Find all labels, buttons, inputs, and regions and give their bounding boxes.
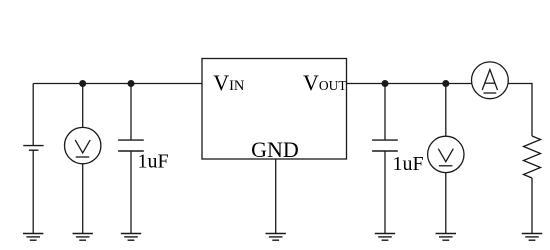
- wire battery to ground: [32, 150, 34, 233]
- wire to capacitor C1: [130, 84, 132, 141]
- ammeter A1: [472, 62, 509, 99]
- wire resistor to ground: [531, 178, 533, 234]
- ground (capacitor C2): [375, 234, 395, 241]
- wire voltmeter V2 to ground: [445, 173, 447, 234]
- svg-text:1uF: 1uF: [393, 153, 424, 175]
- resistor R1: [524, 136, 541, 178]
- ground (capacitor C1): [121, 234, 141, 241]
- wire battery drop top: [32, 84, 34, 146]
- voltage source B1: [23, 146, 43, 151]
- ground (GND pin): [266, 234, 286, 241]
- voltmeter V1: [65, 127, 101, 163]
- wire to capacitor C2: [384, 84, 386, 141]
- svg-text:VOUT: VOUT: [303, 70, 347, 95]
- svg-text:1uF: 1uF: [138, 150, 169, 172]
- svg-text:GND: GND: [251, 137, 299, 162]
- wire top-left rail: [33, 83, 202, 85]
- ground (voltmeter V1): [73, 234, 93, 241]
- capacitor C2: [372, 140, 398, 151]
- node junction (capacitor C2): [382, 80, 389, 87]
- wire GND pin drop: [275, 159, 277, 234]
- regulator U1 box: [202, 59, 347, 160]
- svg-text:VIN: VIN: [213, 70, 245, 95]
- ground (resistor R1): [522, 234, 542, 241]
- wire capacitor C1 to ground: [130, 151, 132, 234]
- node junction (voltmeter V2): [442, 80, 449, 87]
- wire to voltmeter V2: [445, 84, 447, 137]
- node junction (capacitor C1): [128, 80, 135, 87]
- wire to voltmeter V1: [82, 84, 84, 128]
- wire ammeter to corner: [508, 84, 532, 137]
- ground (voltmeter V2): [436, 234, 456, 241]
- ground (battery): [23, 234, 43, 241]
- voltmeter V2: [428, 136, 464, 172]
- wire voltmeter V1 to ground: [82, 164, 84, 234]
- wire output rail: [347, 83, 472, 85]
- capacitor C1: [118, 140, 144, 151]
- wire capacitor C2 to ground: [384, 151, 386, 234]
- node junction (voltmeter V1): [79, 80, 86, 87]
